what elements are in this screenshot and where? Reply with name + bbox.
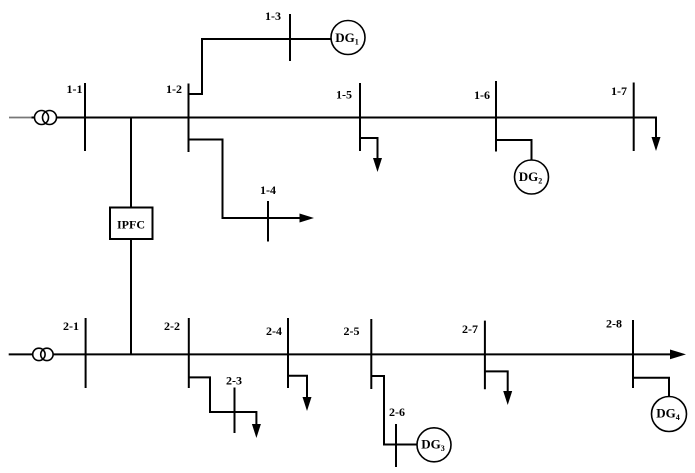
wire DG2 tap xyxy=(496,140,532,160)
IPFC box xyxy=(110,208,153,240)
bus 2-6 xyxy=(395,424,397,467)
arrow feeder-2 end xyxy=(670,350,686,360)
wire load tap 1-5 xyxy=(360,138,378,159)
svg-text:2-1: 2-1 xyxy=(63,319,79,333)
wire DG4 tap xyxy=(633,378,669,397)
load arrow 2-7 xyxy=(503,391,512,405)
svg-text:2-7: 2-7 xyxy=(462,322,478,336)
load arrow 2-4 xyxy=(303,397,312,411)
wire feeder-2 main line xyxy=(53,353,672,355)
wire feeder-1 end drop xyxy=(655,118,657,139)
bus 2-5 xyxy=(370,319,372,389)
svg-text:2-8: 2-8 xyxy=(606,317,622,331)
bus 1-6 xyxy=(495,81,497,152)
transformer T2 xyxy=(33,348,53,360)
wire load tap 2-7 xyxy=(485,371,508,392)
load arrow feeder-1 end xyxy=(652,137,661,151)
wire branch 2-5 to 2-6 xyxy=(371,376,416,445)
svg-text:1-2: 1-2 xyxy=(166,82,182,96)
svg-text:1-5: 1-5 xyxy=(336,88,352,102)
transformer T1 xyxy=(35,111,57,125)
wire IPFC tie lower xyxy=(130,239,132,354)
svg-text:2-3: 2-3 xyxy=(226,374,242,388)
load arrow bus 1-4 xyxy=(300,214,315,223)
wire branch 1-2 to 1-3 xyxy=(189,39,332,94)
svg-text:1-3: 1-3 xyxy=(265,9,281,23)
svg-text:2-5: 2-5 xyxy=(344,324,360,338)
bus 1-5 xyxy=(359,83,361,151)
wire branch 1-2 to 1-4 xyxy=(189,140,301,219)
bus 1-3 xyxy=(289,14,291,61)
bus 2-3 xyxy=(234,388,236,434)
bus 2-1 xyxy=(85,318,87,388)
svg-text:1-7: 1-7 xyxy=(611,84,627,98)
svg-text:2-4: 2-4 xyxy=(266,324,282,338)
svg-text:1-6: 1-6 xyxy=(474,88,490,102)
generator DG2 xyxy=(515,160,549,194)
svg-text:2-2: 2-2 xyxy=(164,319,180,333)
svg-text:1-4: 1-4 xyxy=(260,183,276,197)
wire load tap 2-4 xyxy=(288,376,307,398)
bus 2-7 xyxy=(484,321,486,390)
svg-text:IPFC: IPFC xyxy=(117,217,145,231)
bus 1-4 xyxy=(267,201,269,242)
wire feeder-1 main line xyxy=(57,117,658,119)
generator DG3 xyxy=(417,428,451,462)
wire IPFC tie upper xyxy=(130,118,132,208)
generator DG1 xyxy=(331,21,365,55)
generator DG4 xyxy=(652,397,687,432)
wire branch 2-2 to 2-3 xyxy=(189,377,257,425)
load arrow 2-3 xyxy=(252,424,261,438)
bus 1-2 xyxy=(188,84,190,153)
load arrow 1-5 xyxy=(373,158,382,172)
wire feeder-1 lead stub xyxy=(32,117,35,119)
wire feeder-1 source lead xyxy=(9,117,32,119)
bus 1-1 xyxy=(84,83,86,151)
bus 2-8 xyxy=(632,320,634,388)
svg-text:1-1: 1-1 xyxy=(67,82,83,96)
svg-text:2-6: 2-6 xyxy=(389,405,405,419)
bus 2-4 xyxy=(287,318,289,388)
bus 1-7 xyxy=(633,83,635,152)
wire feeder-2 source lead xyxy=(9,353,34,355)
bus 2-2 xyxy=(188,318,190,388)
